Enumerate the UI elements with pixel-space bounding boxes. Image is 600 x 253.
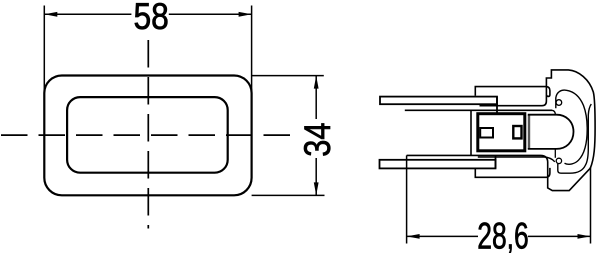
svg-text:34: 34 <box>297 122 338 156</box>
curl top circle <box>556 100 562 106</box>
body top line <box>405 109 552 111</box>
svg-text:28,6: 28,6 <box>477 215 528 253</box>
dim 58 extension line right <box>251 6 253 94</box>
dim 34 arrow bottom <box>314 182 319 195</box>
vertical centerline <box>147 40 149 229</box>
side view top mounting bar <box>380 97 497 105</box>
dim 58 arrow right <box>239 12 252 17</box>
dim 28,6 extension line right <box>590 167 592 244</box>
lens flange bottom line <box>475 168 550 177</box>
bar cap verticals <box>496 97 498 114</box>
lamp outer profile with lens <box>407 70 595 191</box>
dim 34 extension line top <box>252 75 324 77</box>
connector window left <box>480 128 493 138</box>
dim 28,6 arrow left <box>407 234 420 239</box>
body top line end link <box>552 110 555 114</box>
connector window right <box>513 126 521 138</box>
lens inner surface line <box>558 104 592 173</box>
bulb <box>528 115 574 149</box>
dim 34 arrow top <box>314 76 319 89</box>
dim 28,6 extension line left <box>406 155 408 243</box>
bulb base gray line <box>528 115 530 149</box>
lens flange top line <box>475 87 550 97</box>
body bottom inner line <box>478 157 555 162</box>
bulb bottom link <box>554 149 556 158</box>
svg-text:58: 58 <box>134 0 169 38</box>
connector box <box>478 114 525 151</box>
body right edge <box>470 110 472 155</box>
dim 34 extension line bottom <box>252 194 325 196</box>
curl bottom circle <box>556 158 561 163</box>
dim 58 arrow left <box>44 12 57 17</box>
dim 34 dimension line <box>315 76 317 119</box>
reflector dome arc <box>556 90 587 164</box>
dim 28,6 arrow right <box>578 234 591 239</box>
dim 58 dimension line <box>44 13 131 15</box>
horizontal centerline <box>1 134 292 136</box>
front view lens inner contour <box>67 97 228 173</box>
dim 58 extension line left <box>43 6 45 94</box>
front view outer contour <box>44 76 251 196</box>
side view bottom mounting bar <box>380 160 496 169</box>
dim 28,6 dimension line <box>407 235 478 237</box>
